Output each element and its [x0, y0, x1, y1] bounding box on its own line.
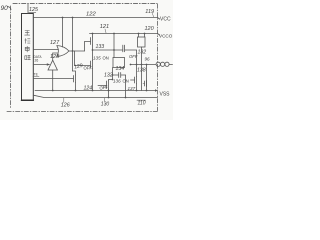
wire stub from top border to block [27, 4, 29, 14]
wire arrow from block to triangle [33, 64, 49, 66]
wire M136 source through B3 to B4 [108, 89, 110, 98]
svg-text:128: 128 [50, 54, 60, 60]
bus B3 lower rail [35, 90, 156, 92]
svg-text:136: 136 [113, 78, 121, 83]
mosfet M136 [107, 81, 109, 90]
wire vertical from B1 at x62 [62, 18, 64, 48]
wire vertical x146 coil line to B3 [146, 65, 148, 91]
svg-text:129: 129 [74, 63, 84, 71]
bus B2 VCCO rail [90, 33, 158, 35]
wire M133 source to M135 drain [92, 45, 94, 61]
svg-text:133: 133 [96, 44, 105, 50]
mosfet M135 [91, 61, 93, 69]
wire vertical x136 to M-br [136, 65, 138, 77]
chinese char 1 [25, 31, 30, 36]
label 90 [1, 5, 12, 12]
svg-text:26: 26 [35, 59, 39, 63]
chinese char 2 [25, 39, 30, 44]
box 134 [113, 58, 125, 68]
inductor L coil [156, 62, 160, 66]
mosfet M138 [135, 77, 137, 84]
mosfet M139 marks [145, 81, 147, 87]
svg-text:126: 126 [61, 102, 70, 108]
svg-text:121: 121 [100, 24, 109, 30]
capacitor C2 [123, 45, 125, 52]
wire M124 gate lead from block [33, 78, 73, 80]
dashed boundary box 90 [7, 4, 159, 112]
wire M136 drain [109, 80, 113, 81]
svg-text:VCCO: VCCO [159, 34, 173, 39]
mosfet M124 [74, 75, 76, 83]
svg-text:OFF: OFF [99, 84, 109, 90]
svg-text:110: 110 [138, 101, 146, 107]
VCC exit arrow [158, 18, 160, 20]
wire M138 gate stub [131, 79, 135, 81]
chinese char 4 [25, 55, 31, 59]
wire M138 source to B3 [136, 84, 138, 91]
wire M136 gate lead [98, 85, 107, 87]
svg-text:120: 120 [145, 26, 155, 32]
svg-text:VSS: VSS [160, 92, 171, 98]
svg-text:OFF: OFF [84, 66, 93, 71]
svg-text:122: 122 [86, 12, 96, 18]
svg-text:TE: TE [34, 73, 39, 77]
capacitor C1 [113, 73, 126, 78]
svg-text:ON: ON [103, 56, 109, 61]
svg-text:124: 124 [84, 86, 93, 92]
svg-text:96: 96 [145, 57, 151, 62]
bus B4 VSS rail 126 [33, 95, 157, 97]
wire vertical from B2 to box 134 [113, 34, 115, 58]
svg-text:137: 137 [128, 86, 136, 91]
wire box134 bottom to M136 drain [112, 68, 114, 80]
wire from C2 down to coil line [136, 50, 138, 65]
svg-text:127: 127 [50, 40, 60, 46]
wire riser to M133 gate [85, 42, 91, 52]
coil line wire [131, 64, 157, 66]
wire M124 source to B3 [75, 83, 77, 91]
buffer triangle 128 [48, 60, 57, 70]
wire triangle output up to gate [53, 53, 58, 60]
mosfet M133 [91, 37, 93, 45]
wire box132 bottom through coil line to B3 [141, 47, 143, 91]
svg-text:135: 135 [93, 56, 101, 61]
wire gate output [69, 50, 85, 52]
svg-text:ON: ON [123, 79, 129, 84]
svg-text:134: 134 [116, 66, 125, 72]
wire node133 to x136 [93, 49, 123, 51]
wire triangle input down to B3 [52, 70, 54, 91]
svg-text:138: 138 [137, 68, 146, 74]
svg-text:VCC: VCC [160, 17, 171, 23]
chinese char 3 [25, 46, 29, 52]
or-gate 127 [57, 46, 69, 57]
svg-text:130: 130 [101, 101, 110, 107]
svg-text:90: 90 [1, 5, 9, 12]
bus B1 VCC rail [33, 17, 157, 19]
wire M135 source to B3 [92, 69, 94, 91]
label 110 with leader [137, 99, 146, 101]
wire vertical from B1 at x72 [72, 18, 74, 72]
wire M135 gate lead [75, 65, 91, 67]
wire cap to B4 [125, 75, 127, 98]
svg-text:132: 132 [104, 73, 113, 79]
main control circuit block 125 [22, 14, 34, 101]
B3 arrow to border [155, 89, 158, 92]
VCCO exit arrow [158, 34, 160, 36]
wire gate input from block [33, 49, 58, 51]
box 132 hanging from B2 [139, 34, 145, 38]
wire M124 drain to x72 vertical [73, 71, 76, 75]
